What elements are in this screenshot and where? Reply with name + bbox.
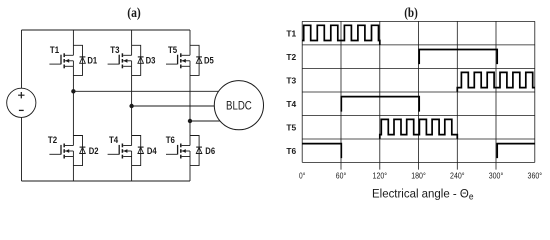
transistor T3: [108, 53, 132, 68]
svg-text:120°: 120°: [373, 171, 388, 181]
wire: leg3 drain top: [189, 30, 191, 55]
svg-text:D2: D2: [89, 146, 99, 156]
DC source V1: [7, 88, 36, 117]
wire: bottom DC rail: [22, 180, 191, 182]
waveform T4: [341, 97, 419, 112]
wire: phase A to motor: [73, 90, 219, 92]
svg-text:T1: T1: [50, 45, 59, 55]
wire: left vertical above source: [21, 30, 23, 88]
svg-text:(b): (b): [404, 5, 418, 20]
waveform T2: [419, 50, 497, 65]
wire: leg1 source bottom: [72, 157, 74, 182]
wire: leg1 midsection: [72, 66, 74, 145]
svg-text:D6: D6: [205, 146, 215, 156]
transistor T2: [49, 144, 73, 159]
svg-text:(a): (a): [127, 5, 141, 20]
svg-text:T4: T4: [286, 99, 296, 109]
svg-text:360°: 360°: [528, 171, 543, 181]
wire: phase C to motor: [190, 120, 221, 122]
transistor T5: [166, 53, 190, 68]
transistor T1: [49, 53, 73, 68]
svg-text:T2: T2: [48, 135, 57, 145]
svg-text:300°: 300°: [489, 171, 504, 181]
diode D2: [73, 136, 85, 166]
svg-text:Electrical angle - Θe: Electrical angle - Θe: [372, 187, 474, 202]
wire: leg2 source bottom: [131, 157, 133, 182]
node phase C junction: [188, 119, 192, 123]
BLDC motor M1: [214, 81, 263, 130]
svg-text:D3: D3: [146, 55, 156, 65]
svg-text:T4: T4: [109, 135, 118, 145]
wire: leg1 drain top: [72, 30, 74, 55]
node phase A junction: [71, 89, 75, 93]
wire: leg2 midsection: [131, 66, 133, 145]
svg-text:T2: T2: [286, 52, 296, 62]
svg-text:60°: 60°: [336, 171, 346, 181]
wire: phase B to motor: [132, 105, 215, 107]
svg-text:180°: 180°: [411, 171, 426, 181]
wire: leg3 source bottom: [189, 157, 191, 182]
svg-text:T1: T1: [286, 29, 296, 39]
svg-text:D4: D4: [147, 146, 157, 156]
transistor T6: [166, 144, 190, 159]
svg-text:D5: D5: [204, 55, 214, 65]
waveform T5: [380, 119, 458, 138]
grid vertical lines: [302, 21, 535, 169]
wire: left vertical below source: [21, 117, 23, 181]
diode D5: [190, 45, 202, 75]
svg-text:0°: 0°: [299, 171, 305, 181]
svg-text:T5: T5: [286, 123, 296, 133]
diode D6: [190, 136, 202, 166]
diode D4: [132, 136, 144, 166]
svg-text:240°: 240°: [450, 171, 465, 181]
svg-text:T6: T6: [166, 135, 175, 145]
svg-text:T3: T3: [286, 76, 296, 86]
svg-text:BLDC: BLDC: [226, 100, 252, 112]
svg-text:T6: T6: [286, 146, 296, 156]
transistor T4: [108, 144, 132, 159]
waveform T1: [302, 25, 380, 44]
diode D1: [73, 45, 85, 75]
svg-text:D1: D1: [87, 55, 97, 65]
wire: leg2 drain top: [131, 30, 133, 55]
waveform T6: [302, 144, 535, 159]
waveform T3: [457, 72, 535, 91]
wire: leg3 midsection: [189, 66, 191, 145]
node phase B junction: [129, 104, 133, 108]
wire: top DC rail: [22, 29, 191, 31]
grid horizontal lines: [302, 21, 535, 162]
svg-text:T5: T5: [168, 45, 177, 55]
diode D3: [132, 45, 144, 75]
svg-text:T3: T3: [110, 45, 119, 55]
